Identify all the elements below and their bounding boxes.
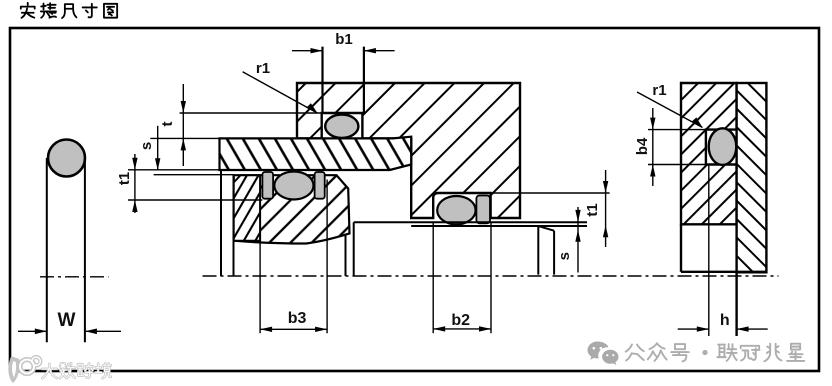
svg-text:b4: b4 — [634, 137, 651, 155]
svg-text:t: t — [159, 122, 176, 127]
svg-text:r1: r1 — [256, 60, 270, 77]
svg-text:h: h — [720, 312, 730, 329]
svg-text:s: s — [138, 142, 155, 150]
svg-text:b1: b1 — [335, 31, 353, 48]
svg-text:s: s — [556, 252, 573, 260]
svg-text:t1: t1 — [584, 203, 601, 216]
svg-text:t1: t1 — [116, 172, 133, 185]
svg-text:b3: b3 — [288, 310, 307, 327]
svg-text:r1: r1 — [652, 82, 666, 99]
svg-text:b2: b2 — [451, 312, 470, 329]
svg-text:W: W — [58, 310, 76, 331]
